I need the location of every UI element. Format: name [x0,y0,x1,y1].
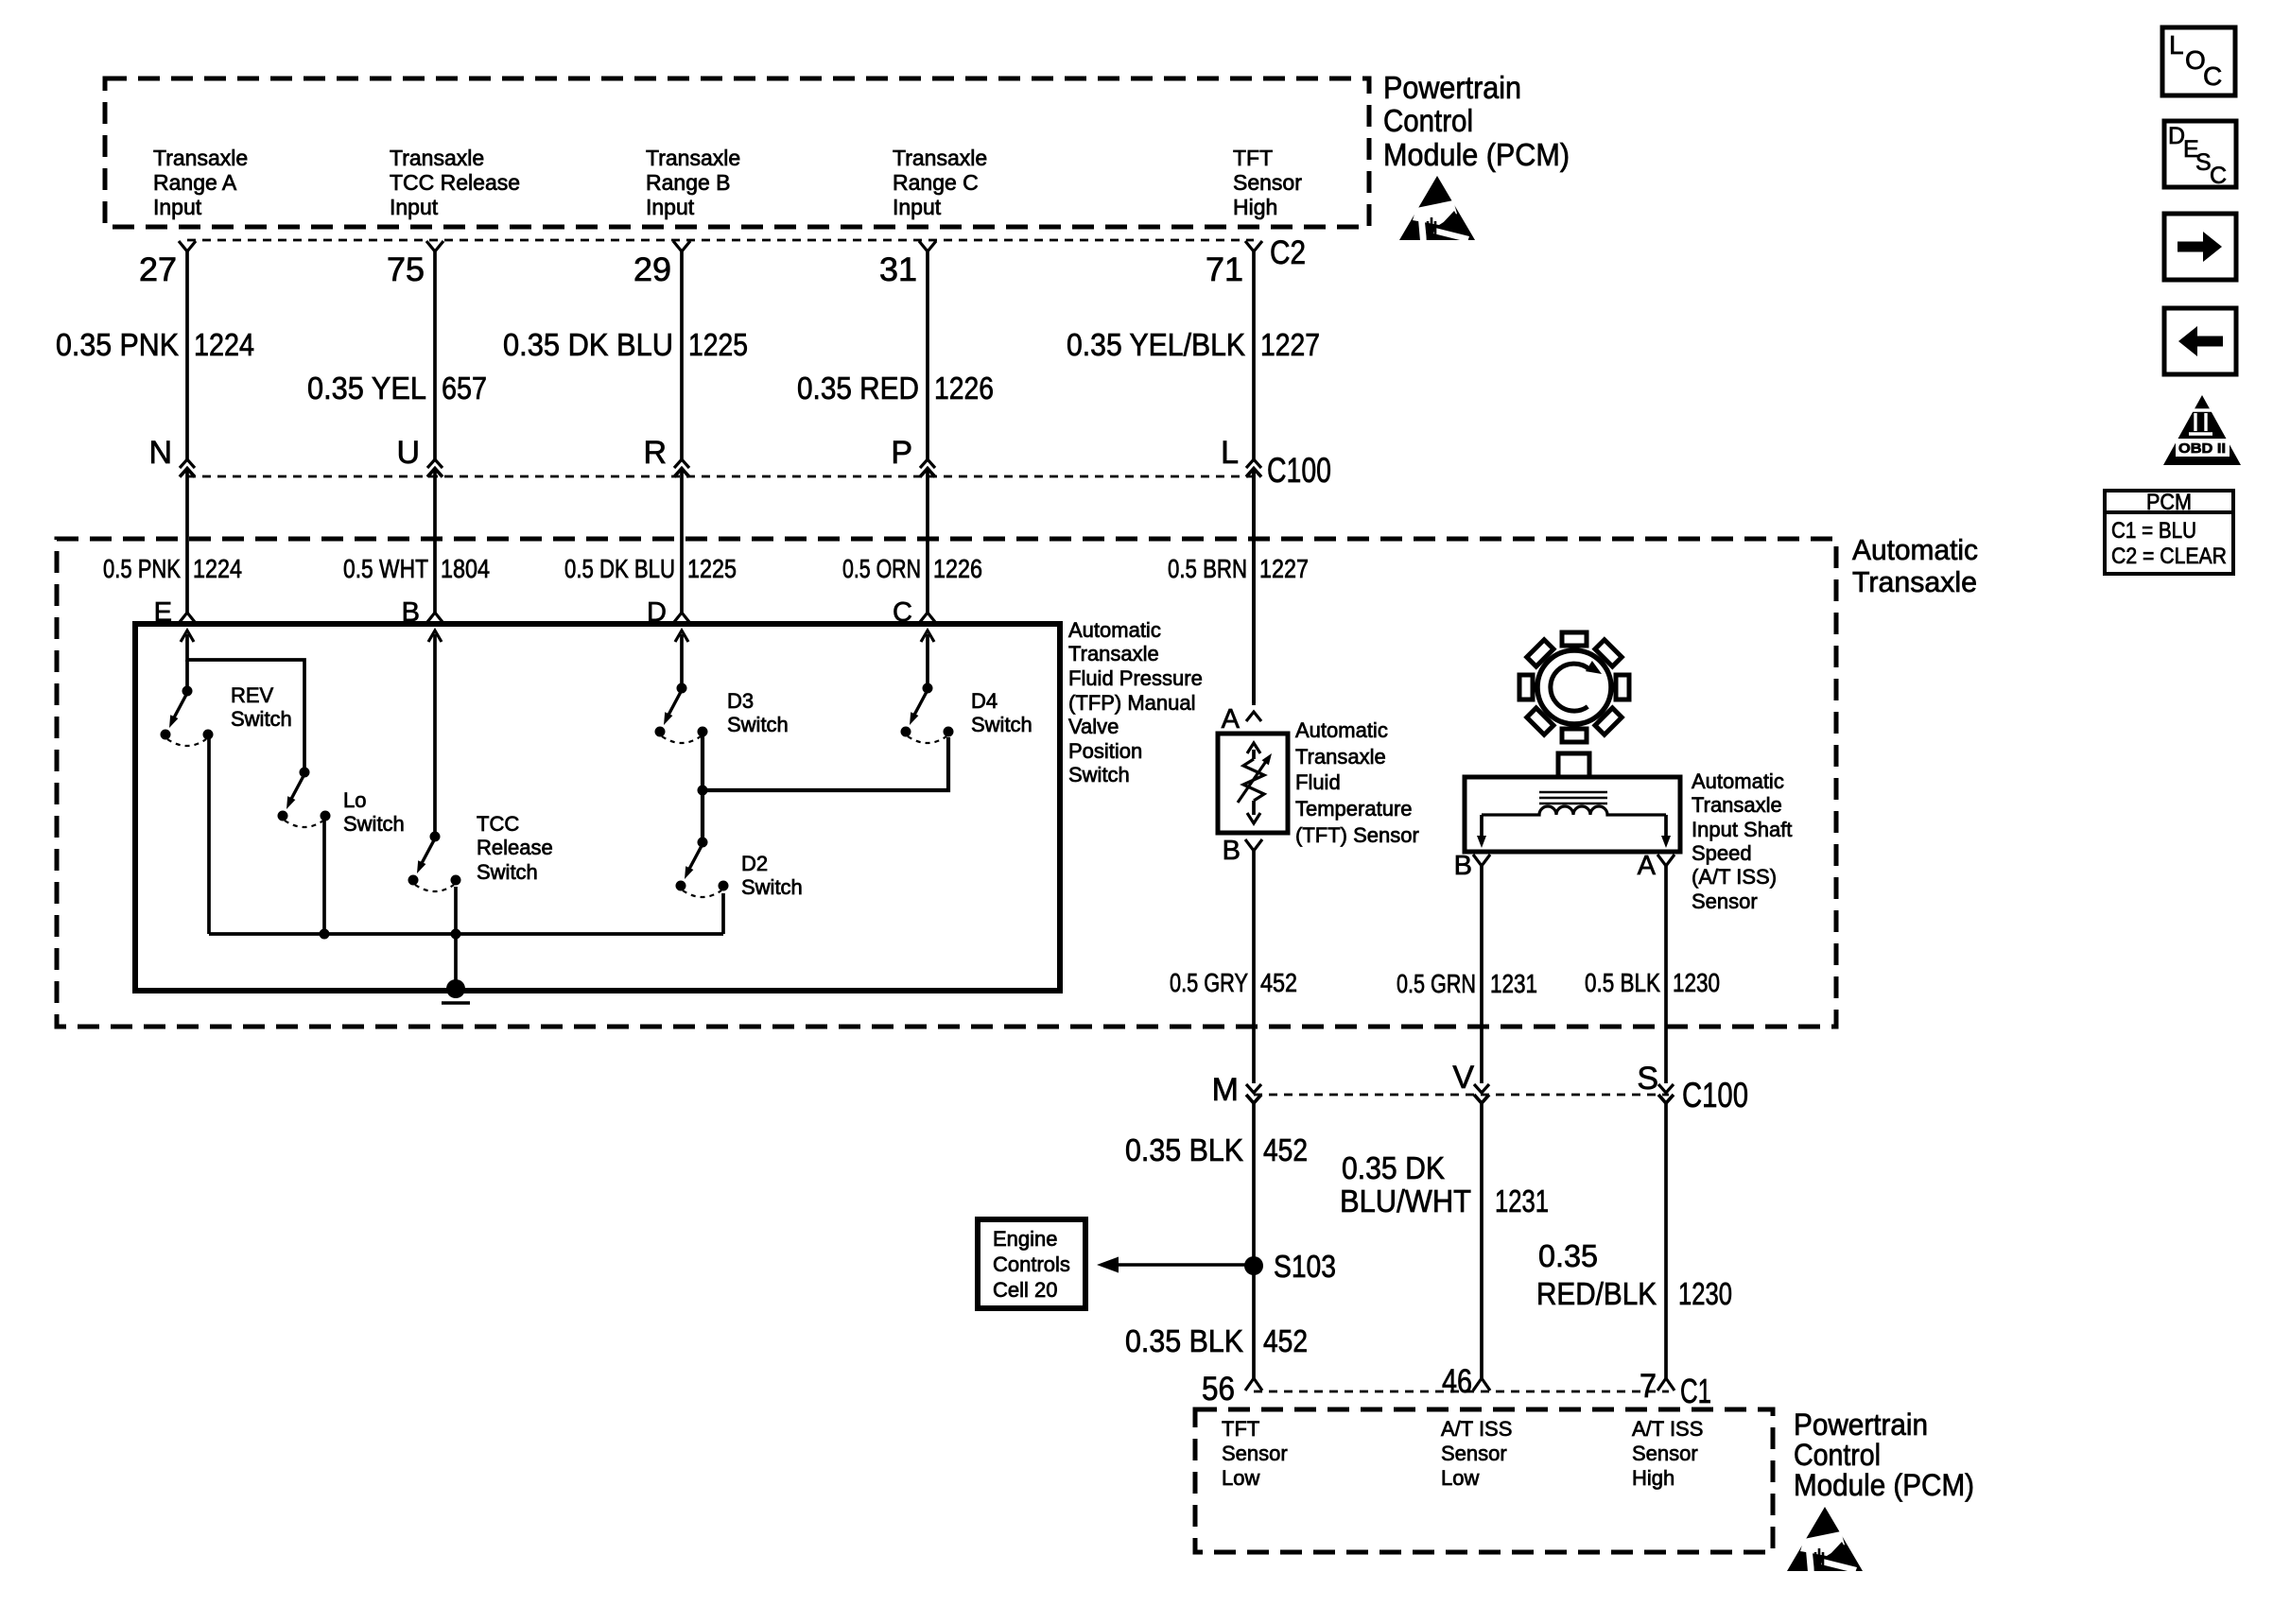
svg-text:Control: Control [1383,103,1473,138]
svg-text:A/T ISS: A/T ISS [1441,1417,1512,1441]
wire: branch from E to Lo switch [187,660,304,768]
svg-text:C: C [2203,61,2222,91]
svg-text:Low: Low [1441,1466,1479,1490]
D4 switch [901,683,954,744]
svg-text:B: B [1454,851,1472,881]
connector C100 dashed line (upper) [187,475,1254,478]
svg-text:27: 27 [139,251,177,288]
svg-text:0.35: 0.35 [1538,1238,1598,1273]
connector fork at ISS pin A [1657,855,1674,866]
connector chevron at TFP pin B [427,613,442,622]
svg-text:Valve: Valve [1068,715,1119,738]
svg-text:RED/BLK: RED/BLK [1536,1276,1657,1311]
svg-text:Powertrain: Powertrain [1794,1408,1928,1442]
svg-text:L: L [1221,435,1239,471]
svg-text:PCM: PCM [2146,490,2192,515]
svg-text:C1 = BLU: C1 = BLU [2111,518,2196,544]
svg-text:1804: 1804 [441,554,490,583]
A/T ISS internal lead A (down arrow) [1664,815,1668,836]
icon: OBD II triangle [2163,395,2241,465]
wire: TCC contact drop to common bus [454,887,458,934]
svg-text:Transaxle: Transaxle [646,146,740,170]
svg-text:Transaxle: Transaxle [1295,745,1386,769]
D3 switch [655,683,708,744]
svg-text:TFT: TFT [1222,1417,1259,1441]
svg-text:Sensor: Sensor [1692,890,1758,913]
connector symbol pin S [1658,1084,1674,1093]
svg-text:Position: Position [1068,739,1142,763]
wire 0.35 DK BLU 1225 (PCM to C100) [680,251,684,459]
wire entry arrow inside TFP box [675,631,688,642]
svg-text:Module (PCM): Module (PCM) [1794,1468,1974,1502]
PCM module box (bottom, dashed) [1195,1409,1773,1552]
TFP manual valve position switch box [135,624,1060,991]
connector C100 symbol pin U [427,459,442,468]
svg-text:Range A: Range A [153,170,237,195]
svg-text:V: V [1452,1060,1474,1096]
wire 0.35 PNK 1224 (PCM to C100) [185,251,189,459]
ESD warning symbol (bottom PCM) [1787,1507,1863,1573]
svg-text:TCC Release: TCC Release [390,170,520,195]
svg-text:1225: 1225 [688,327,748,362]
wire 0.5 BLK 1230 (ISS A to C100) [1664,866,1668,1083]
svg-text:Range B: Range B [646,170,731,195]
svg-text:D2: D2 [741,852,768,875]
svg-text:L: L [2169,30,2184,60]
connector C100 dashed line (lower) [1254,1094,1669,1097]
connector C100 symbol pin P [920,459,935,468]
A/T ISS sensor core bars [1539,791,1607,794]
splice S103 [1244,1256,1263,1275]
svg-text:452: 452 [1260,968,1297,997]
svg-text:Automatic: Automatic [1295,718,1388,742]
A/T ISS internal lead B (down arrow) [1480,815,1484,836]
svg-text:29: 29 [633,251,671,288]
svg-text:657: 657 [442,371,487,406]
junction: D3/D4 tie point [698,786,708,796]
wire 0.35 YEL/BLK 1227 (PCM to C100) [1252,251,1256,459]
connector fork at C2 pin 29 [673,241,690,251]
svg-text:(A/T ISS): (A/T ISS) [1692,865,1777,889]
junction: TCC to bus [451,929,461,940]
svg-text:Sensor: Sensor [1441,1442,1507,1465]
svg-text:1227: 1227 [1259,554,1309,583]
svg-text:0.5 GRN: 0.5 GRN [1397,969,1476,998]
wire 0.5 GRY 452 (TFT B to C100) [1252,851,1256,1083]
svg-text:0.5 BRN: 0.5 BRN [1168,554,1247,583]
svg-text:REV: REV [231,683,274,707]
svg-text:Temperature: Temperature [1295,797,1413,821]
svg-text:0.35 PNK: 0.35 PNK [56,327,179,362]
svg-text:0.5 PNK: 0.5 PNK [103,554,182,583]
svg-text:71: 71 [1206,251,1243,288]
svg-text:Range C: Range C [893,170,979,195]
wire: REV contact drop to common bus [207,736,211,934]
input shaft gear icon [1519,632,1629,742]
svg-text:1226: 1226 [933,554,982,583]
svg-text:High: High [1233,195,1277,219]
svg-text:Sensor: Sensor [1233,170,1302,195]
svg-text:D4: D4 [971,689,998,713]
svg-text:0.5 ORN: 0.5 ORN [842,554,921,583]
svg-text:R: R [643,435,667,471]
svg-text:7: 7 [1640,1368,1657,1405]
svg-text:Switch: Switch [727,713,789,736]
REV switch [161,686,214,747]
svg-text:Fluid: Fluid [1295,770,1341,794]
connector chevron at TFP pin C [920,613,935,622]
svg-text:56: 56 [1202,1371,1235,1408]
svg-text:S: S [1637,1061,1658,1097]
svg-text:Speed: Speed [1692,841,1752,865]
wire: D3 contact down to D2 pivot (with D4 tie) [701,736,704,839]
svg-text:A: A [1638,851,1657,881]
svg-text:(TFT) Sensor: (TFT) Sensor [1295,823,1419,847]
svg-text:Transaxle: Transaxle [893,146,987,170]
svg-text:452: 452 [1263,1132,1308,1167]
svg-text:Cell 20: Cell 20 [993,1278,1057,1302]
svg-text:Engine: Engine [993,1227,1058,1251]
connector fork at C1 pin 56 [1245,1378,1262,1391]
svg-text:TFT: TFT [1233,146,1273,170]
svg-text:High: High [1632,1466,1674,1490]
svg-text:Lo: Lo [343,788,366,812]
svg-text:Switch: Switch [231,707,292,731]
connector fork at C2 pin 71 [1245,241,1262,251]
wire 0.35 BLK 452 (C100 to S103 to PCM 56) [1252,1103,1256,1378]
wire entry arrow inside TFP box [428,631,442,642]
svg-text:A: A [1222,704,1241,734]
wire 0.5 DK BLU 1225 (C100 into transaxle) [680,468,684,613]
svg-text:Automatic: Automatic [1852,533,1978,566]
connector chevron at TFT pin A [1246,712,1261,721]
svg-text:Sensor: Sensor [1222,1442,1288,1465]
TFT sensor box [1218,734,1288,833]
svg-text:OBD II: OBD II [2178,441,2226,457]
connector fork at C2 pin 75 [426,241,443,251]
svg-text:C2 = CLEAR: C2 = CLEAR [2111,544,2227,569]
connector C2 dashed line [187,239,1254,242]
wire 0.35 RED/BLK 1230 (C100 to PCM 7) [1664,1103,1668,1378]
svg-text:Switch: Switch [477,860,538,884]
connector C100 symbol pin L [1246,459,1261,468]
svg-text:Controls: Controls [993,1253,1070,1276]
connector symbol pin V [1474,1084,1489,1093]
svg-text:S103: S103 [1274,1249,1336,1284]
svg-text:Sensor: Sensor [1632,1442,1698,1465]
svg-text:TCC: TCC [477,812,519,836]
svg-text:1226: 1226 [934,371,994,406]
svg-text:A/T ISS: A/T ISS [1632,1417,1703,1441]
wire 0.35 YEL 657 (PCM to C100) [433,251,437,459]
svg-text:1230: 1230 [1673,968,1720,997]
svg-text:0.35 BLK: 0.35 BLK [1125,1323,1243,1358]
TCC Release switch [408,832,461,892]
svg-text:Switch: Switch [343,812,405,836]
svg-text:0.35 DK: 0.35 DK [1342,1150,1445,1185]
svg-text:0.5 BLK: 0.5 BLK [1585,968,1661,997]
ground: TFP switch common to case (dot and tick) [446,979,465,998]
svg-text:B: B [1223,836,1241,866]
connector fork at TFT pin B [1245,839,1262,851]
svg-text:0.35 DK BLU: 0.35 DK BLU [503,327,673,362]
svg-text:D3: D3 [727,689,754,713]
connector C100 symbol pin R [674,459,689,468]
wire: Lo contact drop to common bus [322,817,326,934]
svg-text:Automatic: Automatic [1068,618,1161,642]
wire: C down to D4 switch [926,662,929,683]
svg-text:452: 452 [1263,1323,1308,1358]
wire: D down to D3 switch [680,662,684,683]
wire: pin E to REV switch pivot and branch corner [185,660,189,686]
svg-text:0.35 BLK: 0.35 BLK [1125,1132,1243,1167]
svg-text:Low: Low [1222,1466,1259,1490]
connector fork at C1 pin 46 [1473,1378,1490,1391]
icon: back arrow box [2164,308,2236,374]
svg-text:Automatic: Automatic [1692,769,1784,793]
wire 0.5 WHT 1804 (C100 into transaxle) [433,468,437,613]
svg-text:0.35 RED: 0.35 RED [797,371,919,406]
svg-text:Release: Release [477,836,553,859]
wire 0.5 ORN 1226 (C100 into transaxle) [926,468,929,613]
svg-text:0.35 YEL/BLK: 0.35 YEL/BLK [1067,327,1245,362]
svg-text:46: 46 [1442,1363,1472,1400]
Lo switch [278,768,331,828]
svg-text:Switch: Switch [741,875,803,899]
svg-text:N: N [148,435,172,471]
connector fork at C1 pin 7 [1657,1378,1674,1391]
svg-text:Switch: Switch [1068,763,1130,786]
connector fork at C2 pin 27 [179,241,196,251]
wire/arrow: S103 to Engine Controls [1118,1263,1254,1266]
svg-text:Input Shaft: Input Shaft [1692,818,1792,841]
svg-text:C100: C100 [1267,451,1331,490]
wire 0.5 GRN 1231 (ISS B to C100) [1480,866,1484,1083]
svg-text:0.35 YEL: 0.35 YEL [307,371,426,406]
svg-text:BLU/WHT: BLU/WHT [1340,1183,1471,1218]
svg-text:1224: 1224 [194,327,254,362]
svg-text:Switch: Switch [971,713,1032,736]
svg-text:U: U [396,435,420,471]
junction: Lo to bus [320,929,330,940]
svg-text:0.5 DK BLU: 0.5 DK BLU [564,554,675,583]
A/T ISS sensor coil [1482,806,1666,815]
connector fork at ISS pin B [1473,855,1490,866]
svg-text:C2: C2 [1270,234,1306,271]
svg-text:Input: Input [646,195,695,219]
svg-text:Control: Control [1794,1438,1881,1472]
ESD warning symbol (top PCM) [1399,176,1475,242]
connector C1 dashed line [1254,1391,1669,1393]
wire: switch common bus [209,932,723,936]
svg-text:Powertrain: Powertrain [1383,70,1521,105]
svg-text:Module (PCM): Module (PCM) [1383,137,1570,172]
svg-text:Input: Input [153,195,202,219]
svg-text:Fluid Pressure: Fluid Pressure [1068,666,1203,690]
svg-text:1230: 1230 [1678,1276,1732,1311]
svg-text:31: 31 [879,251,917,288]
svg-text:M: M [1212,1072,1239,1108]
svg-text:1225: 1225 [687,554,737,583]
A/T ISS sensor box [1465,777,1680,852]
wire: D2 contact drop to common bus [721,893,725,934]
wire 0.5 PNK 1224 (C100 into transaxle) [185,468,189,613]
wire 0.35 RED 1226 (PCM to C100) [926,251,929,459]
wire: bus to case ground point [454,934,458,988]
svg-text:C1: C1 [1680,1372,1711,1410]
wire 0.5 BRN 1227 into TFT sensor pin A [1252,468,1256,703]
svg-text:1231: 1231 [1495,1183,1549,1218]
svg-text:(TFP) Manual: (TFP) Manual [1068,691,1195,715]
icon: LOC box [2162,27,2235,95]
Engine Controls Cell 20 box [978,1219,1085,1308]
wire: B (TCC) down to TCC release switch [433,662,437,832]
svg-text:Transaxle: Transaxle [1692,793,1782,817]
legend: PCM connector table [2105,490,2233,574]
connector C100 symbol pin N [180,459,195,468]
wire 0.5 BRN 1227 (C100 into transaxle) [1252,468,1256,705]
gear rotation arrow [1551,664,1589,711]
svg-text:Transaxle: Transaxle [1068,642,1159,665]
icon: forward arrow box [2164,214,2236,280]
wire: D4 contact down and over to D3/D2 wire [703,737,948,790]
Automatic Transaxle box (dashed) [57,539,1836,1027]
svg-text:Transaxle: Transaxle [390,146,484,170]
svg-text:75: 75 [387,251,425,288]
connector chevron at TFP pin D [674,613,689,622]
connector symbol pin M [1246,1084,1261,1093]
svg-text:0.5 GRY: 0.5 GRY [1170,968,1248,997]
icon: DESC box [2164,121,2236,189]
wire entry arrow inside TFP box [181,631,194,642]
connector chevron at TFP pin E [180,613,195,622]
wire entry arrow inside TFP box [921,631,934,642]
svg-text:1227: 1227 [1260,327,1320,362]
A/T ISS sensor mounting tab [1558,753,1589,777]
connector fork at C2 pin 31 [919,241,936,251]
svg-text:P: P [891,435,912,471]
svg-text:C100: C100 [1682,1076,1748,1114]
svg-text:Input: Input [390,195,439,219]
svg-text:C: C [2210,163,2227,189]
D2 switch [676,838,729,898]
svg-text:Input: Input [893,195,942,219]
svg-text:Transaxle: Transaxle [1852,565,1977,598]
wire 0.35 DK BLU/WHT 1231 (C100 to PCM 46) [1480,1103,1484,1378]
svg-text:1224: 1224 [193,554,242,583]
TFT sensor thermistor symbol [1238,743,1272,823]
svg-text:1231: 1231 [1490,969,1537,998]
svg-text:0.5 WHT: 0.5 WHT [343,554,428,583]
PCM module box (top, dashed) [105,78,1369,227]
svg-text:Transaxle: Transaxle [153,146,248,170]
